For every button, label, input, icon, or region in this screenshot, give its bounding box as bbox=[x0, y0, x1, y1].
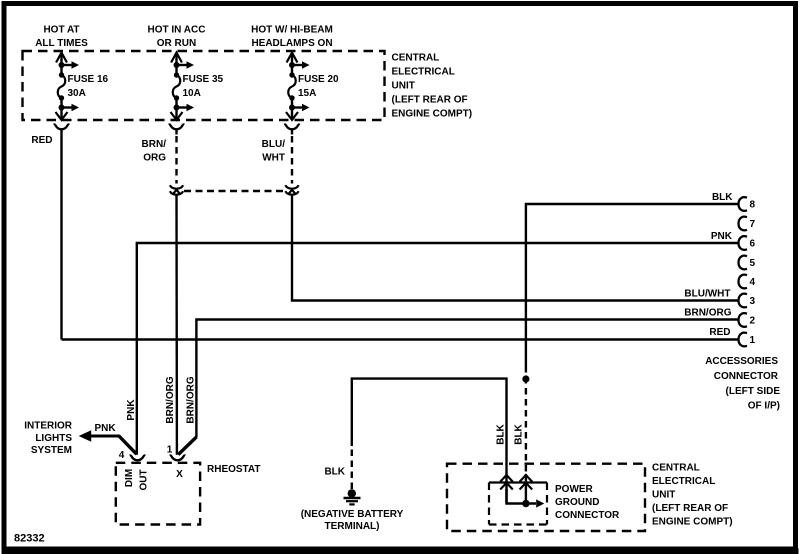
label HOT AT ALL TIMES bbox=[35, 25, 88, 50]
svg-text:ACCESSORIES: ACCESSORIES bbox=[705, 356, 778, 367]
svg-text:HOT IN ACC: HOT IN ACC bbox=[148, 25, 206, 36]
rheostat pin 4 cup bbox=[130, 455, 146, 460]
svg-text:LIGHTS: LIGHTS bbox=[35, 433, 72, 444]
fuse F20 15A bbox=[286, 53, 339, 120]
label BLU/WHT bbox=[262, 139, 286, 164]
svg-text:6: 6 bbox=[750, 239, 756, 250]
svg-text:BRN/: BRN/ bbox=[142, 139, 167, 150]
connector cup below fuse F16 bbox=[54, 124, 70, 129]
svg-text:WHT: WHT bbox=[262, 153, 285, 164]
wire BLU/WHT vertical then horizontal to pin 3 bbox=[292, 195, 738, 301]
svg-text:BLK: BLK bbox=[496, 423, 507, 444]
label BRN/ORG bbox=[142, 139, 167, 164]
label ACCESSORIES CONNECTOR (LEFT SIDE OF I/P) bbox=[705, 356, 780, 412]
junction dot on BLK wire bbox=[522, 375, 529, 382]
svg-text:PNK: PNK bbox=[711, 231, 733, 242]
wire PNK: horizontal from pin 6, vertical down to rheostat pin 4 bbox=[137, 243, 738, 455]
rheostat pin 1 cup bbox=[170, 455, 186, 460]
svg-text:RED: RED bbox=[31, 135, 52, 146]
svg-text:8: 8 bbox=[750, 200, 756, 211]
svg-text:CONNECTOR: CONNECTOR bbox=[555, 510, 620, 521]
inline connector splice (BLU/WHT) bbox=[285, 185, 298, 195]
wire RED horizontal to pin 1 bbox=[62, 338, 738, 340]
svg-text:4: 4 bbox=[119, 450, 125, 461]
svg-text:PNK: PNK bbox=[95, 423, 117, 434]
svg-text:TERMINAL): TERMINAL) bbox=[325, 521, 380, 532]
wire RED vertical from fuse F16 bbox=[60, 129, 62, 339]
wire BRN/ORG dashed from fuse F35 bbox=[175, 129, 177, 183]
svg-text:ORG: ORG bbox=[143, 153, 166, 164]
label INTERIOR LIGHTS SYSTEM bbox=[24, 421, 73, 457]
svg-text:OUT: OUT bbox=[139, 469, 150, 490]
wire BLK battery: ground up, horizontal, down to power ground connector bbox=[352, 379, 507, 504]
svg-text:HEADLAMPS ON: HEADLAMPS ON bbox=[251, 38, 332, 49]
svg-text:2: 2 bbox=[750, 316, 756, 327]
central electrical unit dashed box (bottom) bbox=[447, 464, 645, 531]
wire BRN/ORG 2: horizontal from pin 2, vertical down bbox=[196, 320, 737, 438]
accessories connector pins bbox=[739, 197, 756, 346]
svg-text:CENTRAL: CENTRAL bbox=[652, 463, 700, 474]
svg-text:(LEFT SIDE: (LEFT SIDE bbox=[726, 386, 781, 397]
pin 2 bbox=[739, 313, 748, 327]
wire BLK dashed down to power ground connector bbox=[525, 366, 527, 474]
svg-text:(LEFT REAR OF: (LEFT REAR OF bbox=[392, 95, 468, 106]
pin 6 bbox=[739, 236, 748, 250]
ground symbol (negative battery terminal) bbox=[344, 489, 361, 504]
svg-text:1: 1 bbox=[750, 335, 756, 346]
label DIM OUT (rotated) bbox=[124, 469, 150, 491]
svg-text:INTERIOR: INTERIOR bbox=[24, 421, 73, 432]
label HOT W/ HI-BEAM HEADLAMPS ON bbox=[251, 25, 333, 50]
svg-text:30A: 30A bbox=[68, 88, 86, 99]
inline connector splice (BRN/ORG) bbox=[170, 185, 183, 195]
fuse F35 10A bbox=[171, 53, 224, 120]
svg-text:BRN/ORG: BRN/ORG bbox=[165, 376, 176, 423]
svg-text:(LEFT REAR OF: (LEFT REAR OF bbox=[652, 503, 728, 514]
svg-text:OR RUN: OR RUN bbox=[157, 38, 196, 49]
svg-text:7: 7 bbox=[750, 219, 756, 230]
svg-text:RED: RED bbox=[709, 327, 730, 338]
central electrical unit dashed box (top) bbox=[23, 51, 385, 120]
svg-text:BLK: BLK bbox=[712, 192, 733, 203]
pin 8 bbox=[739, 197, 748, 211]
wire inside power ground connector (left L to arrow) bbox=[507, 489, 545, 508]
svg-text:ENGINE COMPT): ENGINE COMPT) bbox=[392, 109, 473, 120]
wire BRN/ORG 2 diagonal into rheostat pin 1 bbox=[178, 437, 196, 455]
svg-text:SYSTEM: SYSTEM bbox=[31, 445, 72, 456]
svg-text:BRN/ORG: BRN/ORG bbox=[186, 376, 197, 423]
svg-text:FUSE 20: FUSE 20 bbox=[298, 74, 339, 85]
svg-text:ELECTRICAL: ELECTRICAL bbox=[392, 67, 455, 78]
pin 4 bbox=[739, 275, 748, 289]
wire color labels at pins bbox=[684, 192, 733, 338]
svg-text:ENGINE COMPT): ENGINE COMPT) bbox=[652, 517, 733, 528]
power ground connector inner box bbox=[489, 483, 547, 525]
interior lights system arrow bbox=[79, 430, 137, 454]
label CENTRAL ELECTRICAL UNIT (LEFT REAR OF ENGINE COMPT) top bbox=[392, 53, 473, 120]
svg-text:UNIT: UNIT bbox=[652, 490, 675, 501]
pin 1 bbox=[739, 333, 748, 347]
svg-text:HOT W/ HI-BEAM: HOT W/ HI-BEAM bbox=[251, 25, 333, 36]
connector cup below fuse F35 bbox=[169, 124, 185, 129]
svg-text:HOT AT: HOT AT bbox=[43, 25, 79, 36]
svg-text:CONNECTOR: CONNECTOR bbox=[714, 371, 779, 382]
svg-text:PNK: PNK bbox=[126, 399, 137, 421]
pin 7 bbox=[739, 217, 748, 231]
svg-text:ALL TIMES: ALL TIMES bbox=[35, 38, 88, 49]
svg-text:GROUND: GROUND bbox=[555, 497, 599, 508]
svg-text:ELECTRICAL: ELECTRICAL bbox=[652, 476, 715, 487]
label (NEGATIVE BATTERY TERMINAL) bbox=[301, 509, 404, 532]
rheostat dashed box bbox=[116, 463, 200, 525]
svg-text:BRN/ORG: BRN/ORG bbox=[684, 308, 731, 319]
svg-text:RHEOSTAT: RHEOSTAT bbox=[207, 464, 261, 475]
svg-text:82332: 82332 bbox=[14, 533, 45, 545]
svg-text:X: X bbox=[176, 469, 183, 480]
fuse F16 30A bbox=[56, 53, 109, 120]
wire BLK from pin 8 to power ground (solid part) bbox=[526, 204, 738, 366]
svg-text:5: 5 bbox=[750, 258, 756, 269]
svg-text:FUSE 16: FUSE 16 bbox=[68, 74, 109, 85]
pin 5 bbox=[739, 256, 748, 270]
label CENTRAL ELECTRICAL UNIT (LEFT REAR OF ENGINE COMPT) bottom bbox=[652, 463, 733, 528]
svg-text:4: 4 bbox=[750, 277, 756, 288]
svg-text:CENTRAL: CENTRAL bbox=[392, 53, 440, 64]
svg-text:3: 3 bbox=[750, 296, 756, 307]
svg-text:BLK: BLK bbox=[324, 467, 345, 478]
pin 3 bbox=[739, 294, 748, 308]
dashed jumper between splices bbox=[184, 190, 284, 192]
wire BLU/WHT dashed from fuse F20 bbox=[291, 129, 293, 183]
svg-text:(NEGATIVE BATTERY: (NEGATIVE BATTERY bbox=[301, 509, 404, 520]
svg-text:OF I/P): OF I/P) bbox=[748, 401, 780, 412]
label HOT IN ACC OR RUN bbox=[148, 25, 206, 50]
power ground terminal (left) chevrons bbox=[500, 475, 513, 490]
svg-text:10A: 10A bbox=[183, 88, 201, 99]
svg-text:BLK: BLK bbox=[514, 423, 525, 444]
svg-text:UNIT: UNIT bbox=[392, 81, 415, 92]
svg-text:FUSE 35: FUSE 35 bbox=[183, 74, 224, 85]
power ground terminal (right) chevrons bbox=[520, 475, 533, 490]
svg-text:DIM: DIM bbox=[124, 469, 135, 487]
svg-text:1: 1 bbox=[167, 445, 173, 456]
connector cup below fuse F20 bbox=[284, 124, 300, 129]
svg-text:BLU/: BLU/ bbox=[262, 139, 286, 150]
wire inside power ground connector (right drop) bbox=[525, 474, 527, 504]
label POWER GROUND CONNECTOR bbox=[555, 484, 620, 521]
junction dot inside power ground connector bbox=[522, 500, 529, 507]
svg-text:15A: 15A bbox=[298, 88, 316, 99]
wire BRN/ORG vertical to rheostat pin 1 bbox=[175, 195, 178, 455]
svg-text:BLU/WHT: BLU/WHT bbox=[684, 289, 730, 300]
svg-text:POWER: POWER bbox=[555, 484, 594, 495]
